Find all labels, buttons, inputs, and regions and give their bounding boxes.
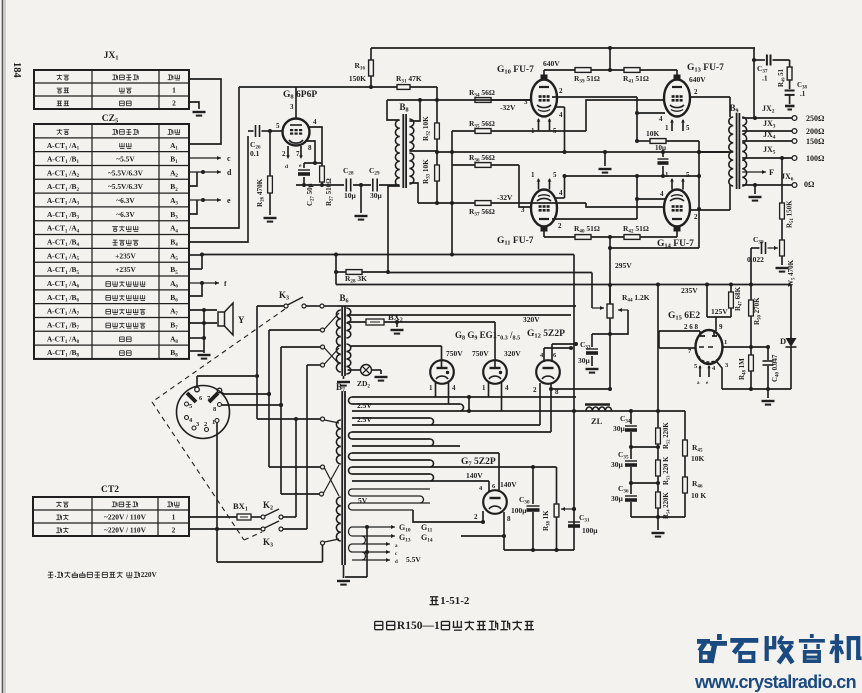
UL bus x699 <box>698 141 700 248</box>
bus x307 <box>306 365 308 529</box>
resistor R48 1M <box>750 347 752 355</box>
heater arrows <box>362 526 395 528</box>
svg-text:4: 4 <box>189 417 193 424</box>
wire B6 row <box>189 283 202 296</box>
fuse BX1 <box>189 516 237 518</box>
grid rail y100 <box>387 99 531 101</box>
svg-text:640V: 640V <box>543 59 560 68</box>
B6 primary taps <box>321 328 325 332</box>
svg-text:30μ: 30μ <box>578 356 591 365</box>
svg-text:30μ: 30μ <box>611 494 624 503</box>
svg-text:5: 5 <box>686 171 690 179</box>
svg-text:150Ω: 150Ω <box>806 137 825 146</box>
rail y411 <box>574 410 685 412</box>
svg-text:JX2: JX2 <box>762 104 775 115</box>
G8 pin8 <box>305 141 315 163</box>
capacitor C38 .1 <box>785 90 795 92</box>
resistor R49 51 <box>789 60 791 67</box>
svg-text:1: 1 <box>531 171 535 179</box>
divider R45 10K <box>684 411 686 440</box>
G7 pin8 link <box>461 535 504 537</box>
node c arrow <box>189 157 221 159</box>
svg-text:5: 5 <box>189 403 193 410</box>
wire B8 primary top <box>387 100 399 120</box>
svg-text:W5 470K: W5 470K <box>787 259 797 287</box>
svg-text:A6: A6 <box>170 279 178 290</box>
wire B8 primary bottom <box>388 186 400 272</box>
svg-text:e: e <box>299 163 302 169</box>
svg-text:R32 10K: R32 10K <box>422 116 432 141</box>
svg-text:R42 51Ω: R42 51Ω <box>623 224 649 235</box>
G14 pin4 <box>637 198 665 200</box>
svg-text:2: 2 <box>282 150 286 158</box>
svg-text:G13 FU-7: G13 FU-7 <box>687 63 724 74</box>
svg-text:4: 4 <box>559 189 563 197</box>
filter cap C31 100u <box>568 521 580 523</box>
capacitor C28 10u <box>345 179 347 192</box>
svg-text:A-CT1 /A4: A-CT1 /A4 <box>47 224 80 235</box>
B9 secondary taps <box>742 117 792 119</box>
svg-text:B9: B9 <box>729 103 738 115</box>
speaker Y <box>218 312 225 326</box>
svg-text:C31: C31 <box>579 513 590 524</box>
svg-text:2: 2 <box>533 386 537 394</box>
svg-text:G11 FU-7: G11 FU-7 <box>497 236 534 247</box>
svg-text:Y: Y <box>238 315 245 325</box>
svg-text:K2: K2 <box>263 500 273 512</box>
svg-text:B8: B8 <box>170 348 178 359</box>
svg-text:G15 6E2: G15 6E2 <box>668 311 700 322</box>
R44 wiper from 295V <box>591 273 593 309</box>
filter cap C30 100u <box>532 467 534 504</box>
svg-text:BX1: BX1 <box>233 501 248 513</box>
capacitor C40 0.047 <box>751 346 768 348</box>
svg-text:2: 2 <box>204 421 207 428</box>
svg-text:2: 2 <box>694 213 698 221</box>
fuse BX2 <box>348 321 367 323</box>
wire y87 <box>239 86 397 88</box>
svg-text:G13: G13 <box>399 533 411 544</box>
svg-text:2: 2 <box>558 222 562 230</box>
heater center tap <box>366 527 368 577</box>
svg-text:d: d <box>395 560 398 565</box>
caption title <box>374 621 376 629</box>
wire B3 to e <box>189 200 197 214</box>
svg-text:4: 4 <box>452 384 456 392</box>
screen bus x637 upper <box>636 97 638 141</box>
svg-text:10μ: 10μ <box>655 144 666 152</box>
svg-text:150K: 150K <box>349 74 366 83</box>
filter bottom rail <box>631 516 685 518</box>
svg-text:5V: 5V <box>358 496 368 505</box>
svg-text:1: 1 <box>172 512 176 521</box>
svg-text:0.1: 0.1 <box>250 149 260 158</box>
svg-text:2: 2 <box>694 88 698 96</box>
tube1 legs <box>435 382 437 397</box>
bottom link <box>217 561 323 563</box>
svg-text:R27 510Ω: R27 510Ω <box>325 178 335 206</box>
svg-text:R150—1: R150—1 <box>397 620 440 632</box>
svg-text:200Ω: 200Ω <box>806 127 825 136</box>
node R16/R31 <box>369 85 373 89</box>
svg-text:R26 470K: R26 470K <box>256 178 266 207</box>
svg-text:4: 4 <box>660 190 664 198</box>
svg-text:~220V / 110V: ~220V / 110V <box>104 512 147 521</box>
choke ZL <box>585 403 610 406</box>
svg-text:1-51-2: 1-51-2 <box>440 595 470 607</box>
svg-text:3: 3 <box>725 362 729 369</box>
B7 winding no.3 <box>352 431 551 433</box>
G14 heater stubs <box>670 178 674 182</box>
wire A8 B8 to ground <box>189 337 204 339</box>
svg-text:C28: C28 <box>343 166 354 177</box>
G15 pin1 <box>722 346 751 348</box>
divider R46 10K <box>683 477 688 493</box>
wire to B9 center tap <box>699 151 729 153</box>
svg-text:A5: A5 <box>170 251 178 262</box>
capacitor C37 .1 <box>754 59 765 61</box>
feedback divider R51 150K <box>781 158 783 203</box>
center tap rail y152 <box>437 151 729 153</box>
svg-text:G10: G10 <box>399 523 411 534</box>
B8 secondary winding lower <box>409 153 413 184</box>
svg-text:e: e <box>227 196 231 205</box>
B7 heater winding <box>352 526 362 528</box>
svg-text:D: D <box>780 336 786 346</box>
svg-text:A-CT1 /B7: A-CT1 /B7 <box>47 320 79 331</box>
svg-text:B6: B6 <box>339 293 348 305</box>
resistor R33 10K <box>436 152 438 165</box>
G10 pin4 <box>556 106 565 108</box>
ground on center rail <box>604 152 606 166</box>
svg-text:235V: 235V <box>681 286 698 295</box>
svg-text:5: 5 <box>276 122 280 130</box>
svg-text:R39 51Ω: R39 51Ω <box>574 74 600 85</box>
svg-text:2.5V: 2.5V <box>357 401 372 410</box>
bus x257 <box>256 306 258 419</box>
resistor R31 47K <box>397 85 410 90</box>
svg-text:1: 1 <box>665 171 669 179</box>
svg-text:e: e <box>706 381 709 386</box>
svg-text:750V: 750V <box>472 349 489 358</box>
grid stopper R34 56 <box>475 98 491 103</box>
cap C35 30u <box>629 445 633 449</box>
octal socket <box>177 386 230 439</box>
tube2 legs <box>488 382 490 397</box>
bleeder R52 220K <box>657 285 659 429</box>
svg-text:C34: C34 <box>620 414 631 425</box>
B6 primary winding <box>336 310 340 372</box>
cap C36 30u <box>629 481 633 485</box>
svg-text:6: 6 <box>553 352 557 359</box>
svg-text:8: 8 <box>507 515 511 523</box>
B7 winding 2.5V no.2 <box>352 417 430 419</box>
svg-text:10K: 10K <box>646 129 660 138</box>
svg-text:+235V: +235V <box>115 251 136 260</box>
svg-text:184: 184 <box>11 62 22 79</box>
rectifier tube G12 5Z2P <box>536 360 560 384</box>
G12 legs <box>539 383 541 425</box>
G8 heater pins 2 7 <box>287 146 289 157</box>
bleeder R38 1K <box>556 467 558 504</box>
B6 sec top line <box>337 305 576 307</box>
wire 640V to top rail <box>609 48 611 70</box>
svg-text:2: 2 <box>474 513 478 521</box>
svg-text:JX6: JX6 <box>781 172 794 183</box>
resistor R16 150K <box>370 48 372 60</box>
svg-text:.1: .1 <box>800 90 806 98</box>
bottom rail y550 <box>504 549 574 551</box>
svg-text:R31 47K: R31 47K <box>396 74 422 85</box>
svg-text:R38 1K: R38 1K <box>542 510 552 531</box>
svg-text:0.022: 0.022 <box>747 255 764 264</box>
svg-text:K3: K3 <box>263 537 273 549</box>
svg-text:250Ω: 250Ω <box>806 114 825 123</box>
svg-text:30μ: 30μ <box>613 424 626 433</box>
R28 3K <box>335 255 337 285</box>
wire A5 B5 +235V <box>189 254 202 256</box>
svg-text:.: . <box>55 571 57 579</box>
svg-text:C36: C36 <box>618 484 629 495</box>
svg-text:B6: B6 <box>170 293 178 304</box>
G10 heater stubs <box>537 118 541 122</box>
wire B4 audio input <box>189 136 248 242</box>
svg-text:2: 2 <box>559 87 563 95</box>
295V line <box>388 272 592 274</box>
capacitor C39 0.022 <box>751 247 760 249</box>
svg-text:125V: 125V <box>711 307 728 316</box>
filter cap C33 30u <box>592 333 610 335</box>
node f arrow <box>189 282 219 284</box>
bleeder R53 220K <box>656 445 660 449</box>
svg-text:C33: C33 <box>580 340 591 351</box>
svg-text:4: 4 <box>559 111 563 119</box>
bias bus x452 <box>451 131 453 255</box>
svg-text:www.crystalradio.cn: www.crystalradio.cn <box>694 672 856 692</box>
neon ZD2 <box>348 369 361 371</box>
svg-text:d: d <box>285 164 288 170</box>
wire R37 to G14 grid <box>586 203 665 207</box>
ground at JX1 pin2 <box>189 102 199 109</box>
cap C34 30u <box>630 411 632 424</box>
svg-text:140V: 140V <box>500 480 517 489</box>
svg-text:1: 1 <box>665 124 669 132</box>
note text <box>48 571 53 573</box>
svg-text:+235V: +235V <box>115 265 136 274</box>
svg-text:6: 6 <box>199 395 203 402</box>
svg-text:A-CT1 /B6: A-CT1 /B6 <box>47 293 79 304</box>
svg-text:.1: .1 <box>762 74 768 83</box>
svg-text:A4: A4 <box>170 224 178 235</box>
B9 secondary ground <box>754 185 756 194</box>
svg-text:220V: 220V <box>141 571 158 579</box>
svg-text:R44 1.2K: R44 1.2K <box>622 293 650 304</box>
svg-text:5.5V: 5.5V <box>406 555 421 564</box>
svg-text:A-CT1 /B3: A-CT1 /B3 <box>47 210 79 221</box>
diode D <box>790 285 792 339</box>
B9 primary center tap <box>699 151 733 153</box>
svg-text:6: 6 <box>492 483 496 490</box>
socket pin6 pad <box>187 393 196 402</box>
svg-text:-32V: -32V <box>500 103 516 112</box>
svg-text:B7: B7 <box>336 382 345 394</box>
bleeder R54 220K <box>656 481 660 485</box>
svg-text:F: F <box>769 167 774 177</box>
output terminals <box>792 116 797 121</box>
svg-text:A-CT1 /A3: A-CT1 /A3 <box>47 196 80 207</box>
svg-text:2.5V: 2.5V <box>357 415 372 424</box>
svg-text:~5.5V/6.3V: ~5.5V/6.3V <box>108 182 144 191</box>
dashed linkage <box>152 309 285 402</box>
screen resistor 10K <box>637 140 650 142</box>
bus x269 <box>268 330 270 467</box>
G14 pin2 to B9 <box>689 209 730 211</box>
svg-text:4: 4 <box>313 118 317 126</box>
svg-text:A-CT1 /B2: A-CT1 /B2 <box>47 182 79 193</box>
F arrow <box>742 171 766 173</box>
5V to G7 cathode <box>413 510 483 522</box>
svg-text:1: 1 <box>482 384 486 392</box>
plate rail lower y237 <box>544 236 575 238</box>
B7 winding 140V <box>352 452 499 454</box>
G11 heater stubs <box>537 178 541 182</box>
svg-text:JX5: JX5 <box>763 145 776 156</box>
socket pin7 pad <box>209 393 218 402</box>
svg-text:~6.3V: ~6.3V <box>116 196 135 205</box>
svg-text:3: 3 <box>290 103 294 111</box>
svg-text:-32V: -32V <box>497 193 513 202</box>
svg-text:R51 150K: R51 150K <box>786 200 796 228</box>
svg-text:A-CT1 /B1: A-CT1 /B1 <box>47 155 79 166</box>
svg-text:100μ: 100μ <box>582 526 598 535</box>
svg-text:8: 8 <box>308 144 312 152</box>
svg-text:JX3: JX3 <box>763 119 776 130</box>
svg-text:G8 6P6P: G8 6P6P <box>283 90 317 101</box>
grid row R35 <box>452 130 475 132</box>
wire R31 down <box>436 87 438 100</box>
B+ rail 235V <box>336 284 791 286</box>
svg-text:C40 0.047: C40 0.047 <box>771 354 781 382</box>
svg-text:A-CT1 /B4: A-CT1 /B4 <box>47 238 79 249</box>
svg-text:c: c <box>395 552 398 557</box>
wire R35 to G13 grid <box>586 100 665 131</box>
svg-text:C35: C35 <box>618 450 629 461</box>
bias join dot <box>450 253 454 257</box>
svg-text:3: 3 <box>521 206 525 214</box>
svg-text:f: f <box>224 279 227 288</box>
svg-text:R48 1M: R48 1M <box>738 358 748 380</box>
svg-text:750V: 750V <box>446 349 463 358</box>
svg-text:A-CT1 /A5: A-CT1 /A5 <box>47 251 80 262</box>
B7 primary winding lower <box>336 497 340 541</box>
G13 pin4 <box>637 112 665 114</box>
node d arrow <box>189 171 221 173</box>
top rail corner into C37 <box>753 48 755 118</box>
svg-text:ZL: ZL <box>591 416 603 426</box>
wire JX1 pin1 to CZ5 A1 <box>189 79 221 144</box>
wire B8 sec mid <box>409 150 437 152</box>
potentiometer W5 470K <box>780 240 785 256</box>
G10 pin2 screen <box>552 96 637 98</box>
svg-text:C39: C39 <box>753 235 764 246</box>
svg-text:4: 4 <box>505 384 509 392</box>
wire 125V node <box>706 285 708 318</box>
svg-text:A-CT1 /A2: A-CT1 /A2 <box>47 168 80 179</box>
node e arrow <box>189 199 221 201</box>
B9 secondary winding <box>742 117 746 186</box>
svg-text:K3: K3 <box>279 290 289 302</box>
svg-text:c: c <box>227 154 231 163</box>
svg-text:295V: 295V <box>615 261 632 270</box>
+235V rail to bus <box>202 254 574 256</box>
svg-text:4: 4 <box>712 365 716 372</box>
svg-text:A3: A3 <box>170 196 178 207</box>
svg-text:R37 56Ω: R37 56Ω <box>469 207 495 218</box>
svg-text:3: 3 <box>196 421 200 428</box>
B6 sec tap2 <box>348 314 572 316</box>
G8 pin4 <box>310 127 323 163</box>
wire B8 sec bottom <box>409 183 418 203</box>
svg-text:10μ: 10μ <box>344 191 357 200</box>
svg-text:R53 220 K: R53 220 K <box>663 456 671 485</box>
svg-text:1: 1 <box>724 339 727 346</box>
svg-text:5: 5 <box>553 171 557 179</box>
svg-text:8: 8 <box>213 406 217 413</box>
wire A4 feedback riser <box>189 87 239 228</box>
svg-text:CT2: CT2 <box>101 485 119 495</box>
svg-text:R50 270K: R50 270K <box>753 297 763 325</box>
svg-text:1: 1 <box>429 384 433 392</box>
primary tap wires <box>257 418 321 420</box>
svg-text:30μ: 30μ <box>611 460 624 469</box>
bus x296 <box>295 419 297 517</box>
svg-text:7: 7 <box>688 348 692 355</box>
svg-text:320V: 320V <box>504 349 521 358</box>
svg-text:1: 1 <box>212 419 215 426</box>
screen bus x637 lower <box>636 176 638 219</box>
svg-text:a: a <box>697 381 700 386</box>
svg-text:G7 5Z2P: G7 5Z2P <box>461 457 496 468</box>
wire y248 to B9 CT <box>610 247 699 249</box>
svg-text:R33 10K: R33 10K <box>422 159 432 184</box>
G13 heater stubs <box>670 119 674 123</box>
rectifier tube G8/G9 no.2 <box>483 360 507 384</box>
svg-text:4: 4 <box>659 115 663 123</box>
svg-text:R47 68K: R47 68K <box>734 286 744 311</box>
main B+ bus x574 <box>573 255 575 551</box>
svg-text:0Ω: 0Ω <box>804 180 815 189</box>
svg-text:R54 220K: R54 220K <box>663 492 671 519</box>
svg-text:B4: B4 <box>170 238 178 249</box>
magic eye bottom rail <box>722 388 791 390</box>
svg-text:G8 G9 EG1-0.3 /8.5: G8 G9 EG1-0.3 /8.5 <box>455 330 520 342</box>
svg-text:A1: A1 <box>170 141 178 152</box>
coupling capacitor C26 0.1 <box>248 130 254 132</box>
svg-text:B2: B2 <box>170 182 178 193</box>
svg-text:7: 7 <box>296 150 300 158</box>
svg-text:2 6 8: 2 6 8 <box>684 323 699 331</box>
B7 primary taps <box>321 417 325 421</box>
svg-text:140V: 140V <box>466 471 483 480</box>
svg-text:A-CT1 /A7: A-CT1 /A7 <box>47 307 80 318</box>
svg-text:JX1: JX1 <box>104 51 119 62</box>
svg-text:5: 5 <box>553 127 557 135</box>
svg-text:R40 51Ω: R40 51Ω <box>574 224 600 235</box>
svg-text:5: 5 <box>686 124 690 132</box>
svg-text:G11: G11 <box>421 523 433 534</box>
filament jumper x469 <box>468 397 470 411</box>
svg-text:~5.5V/6.3V: ~5.5V/6.3V <box>108 168 144 177</box>
